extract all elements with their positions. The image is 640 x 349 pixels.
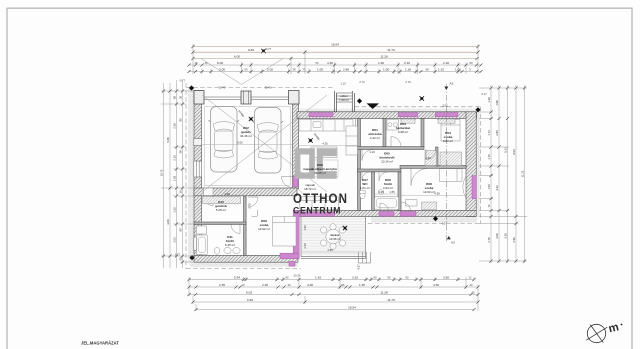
bathtub D06 — [375, 197, 399, 210]
svg-text:5.29 m²: 5.29 m² — [216, 208, 226, 212]
svg-text:3.50: 3.50 — [443, 275, 449, 279]
window W1 living top — [309, 113, 333, 117]
porch wall left — [335, 91, 337, 112]
dim row B5 — [196, 309, 474, 311]
insulation band right wall — [476, 109, 479, 217]
bed szoba left — [273, 217, 297, 247]
svg-text:3.26: 3.26 — [504, 233, 508, 239]
corner marker bottom-left — [189, 255, 194, 260]
window sill arcs — [310, 119, 467, 199]
svg-text:5.94: 5.94 — [234, 275, 240, 279]
dim line furdo interior — [375, 193, 399, 195]
desk D08 — [406, 200, 418, 207]
G_DIM_LEFT vertical chains — [161, 80, 194, 268]
svg-text:11.22: 11.22 — [521, 170, 525, 177]
svg-text:1.05: 1.05 — [173, 175, 177, 181]
roof overhang dashed line top right wing — [355, 106, 481, 108]
svg-text:6.00: 6.00 — [234, 54, 240, 58]
G_WATERMARK — [293, 148, 348, 215]
dim col R5 — [524, 85, 526, 263]
dim col L1 — [163, 83, 165, 268]
svg-text:1.35: 1.35 — [359, 283, 365, 287]
door arc furdo — [379, 172, 388, 181]
roof valley left — [201, 59, 242, 85]
car 1 body — [211, 107, 238, 173]
svg-text:1.93: 1.93 — [315, 275, 321, 279]
dining table — [314, 160, 338, 177]
insulation band bottom left block — [190, 262, 298, 267]
corner marker top-left — [189, 85, 194, 90]
G_DOOR_ARCS — [231, 137, 436, 234]
terrace steps — [359, 252, 371, 263]
svg-text:2.30: 2.30 — [303, 243, 307, 249]
svg-text:30: 30 — [179, 190, 183, 193]
svg-text:OTTHON: OTTHON — [293, 190, 348, 206]
svg-text:4.43: 4.43 — [495, 185, 499, 191]
svg-text:2.96: 2.96 — [512, 237, 516, 243]
wall D10/D11 divider — [194, 222, 246, 225]
compass circle — [586, 324, 607, 342]
radiator under W3 — [438, 119, 455, 123]
svg-text:1.88: 1.88 — [495, 100, 499, 106]
svg-text:38: 38 — [293, 67, 296, 71]
svg-text:-0.77: -0.77 — [265, 47, 272, 51]
svg-text:A3: A3 — [450, 82, 454, 86]
car 2 windshield — [257, 123, 279, 133]
svg-text:30: 30 — [205, 61, 208, 65]
G_PORCH entrance — [335, 91, 355, 112]
svg-text:2.03: 2.03 — [173, 237, 177, 243]
dim col L2 — [169, 83, 171, 268]
kitchen island — [311, 147, 337, 158]
svg-text:1.00: 1.00 — [455, 67, 461, 71]
window W2 D03 top — [398, 113, 417, 117]
svg-text:11.28: 11.28 — [380, 54, 388, 58]
dim col L3 — [176, 80, 178, 268]
wardrobe D10 — [203, 197, 241, 204]
wall garage/living divider — [293, 99, 299, 189]
G_DIM_BOTTOM — [189, 277, 478, 311]
svg-text:6.45 m²: 6.45 m² — [225, 243, 235, 247]
car 2 roof — [259, 132, 278, 152]
svg-text:13.96 m²: 13.96 m² — [329, 237, 341, 241]
door arc D03 — [391, 137, 401, 147]
terrace door bottom living — [300, 212, 335, 216]
svg-text:34.46 m²: 34.46 m² — [240, 134, 252, 138]
garage corner post right — [289, 91, 300, 105]
svg-text:98: 98 — [426, 67, 429, 71]
G_PINK openings — [280, 113, 476, 267]
pink wall vertical szoba/terrace — [293, 210, 299, 258]
bathtub D11 — [197, 235, 208, 255]
dim line living interior — [299, 145, 358, 147]
svg-text:60: 60 — [245, 67, 248, 71]
door arc D04 — [426, 150, 436, 160]
svg-text:2.10: 2.10 — [173, 155, 177, 161]
dim row4 line — [189, 64, 481, 66]
wall right exterior — [466, 112, 476, 217]
level marker living — [308, 138, 312, 142]
door D2 bottom D08 — [400, 212, 416, 217]
svg-text:30: 30 — [179, 257, 183, 260]
svg-text:80: 80 — [173, 96, 177, 99]
porch steps — [336, 93, 352, 102]
svg-text:1.15: 1.15 — [487, 154, 491, 160]
G_ROOM_LABELS — [215, 94, 453, 247]
door D1 bottom furdo — [379, 212, 394, 217]
svg-text:90: 90 — [286, 275, 289, 279]
svg-text:10.14 m²: 10.14 m² — [381, 160, 393, 164]
door arc D11 — [231, 225, 240, 234]
svg-text:2.80: 2.80 — [343, 67, 349, 71]
dim extension horizontals left — [161, 91, 194, 262]
svg-text:2.79: 2.79 — [405, 80, 411, 84]
svg-text:1.35: 1.35 — [378, 190, 384, 194]
svg-text:11.70: 11.70 — [387, 48, 395, 52]
svg-text:73: 73 — [303, 67, 306, 71]
car 2 rear window — [258, 151, 278, 159]
watermark O — [295, 148, 315, 179]
svg-text:4.37: 4.37 — [357, 264, 361, 270]
door arc szoba hall — [248, 197, 258, 207]
radiator D08 — [422, 202, 437, 210]
window gap D11 left wall — [194, 237, 202, 251]
svg-text:11.28: 11.28 — [380, 290, 388, 294]
svg-text:1.55: 1.55 — [389, 190, 395, 194]
door arc furdo bottom — [380, 203, 389, 212]
svg-text:10.72: 10.72 — [160, 169, 164, 176]
svg-text:4.36: 4.36 — [307, 283, 313, 287]
svg-text:40: 40 — [472, 290, 475, 294]
gravel walkway bottom right wing — [371, 217, 477, 223]
wardrobe D04 — [425, 151, 437, 166]
svg-text:30/40: 30/40 — [265, 86, 272, 90]
G_DIM_TOP — [193, 47, 478, 59]
svg-text:50: 50 — [316, 61, 319, 65]
svg-text:90: 90 — [388, 275, 391, 279]
svg-text:1.32: 1.32 — [438, 67, 444, 71]
washer block D11 — [197, 226, 207, 234]
toilet D07 — [360, 192, 365, 198]
svg-text:2.85: 2.85 — [495, 130, 499, 136]
svg-text:3.80: 3.80 — [166, 219, 170, 225]
dim col L4 — [182, 80, 184, 268]
section line A3 — [445, 84, 447, 242]
svg-text:3.06: 3.06 — [495, 233, 499, 239]
table terrace — [326, 229, 340, 243]
dim line terrace interior — [301, 251, 366, 253]
roof diagonal living — [298, 189, 327, 216]
svg-text:1.61 m²: 1.61 m² — [360, 186, 370, 190]
garage corner post left — [194, 91, 204, 105]
svg-text:6.03: 6.03 — [246, 290, 252, 294]
bed D08 — [440, 169, 463, 182]
door arc D08 bottom — [401, 202, 411, 212]
svg-text:4.42 m²: 4.42 m² — [370, 136, 380, 140]
dim col R1 — [490, 85, 492, 263]
entry marker triangle — [367, 103, 380, 109]
svg-text:2.10: 2.10 — [404, 61, 410, 65]
door arc WC — [362, 172, 370, 180]
svg-text:39.05 m²: 39.05 m² — [314, 171, 326, 175]
wall bottom living+right wing — [297, 210, 476, 216]
svg-text:36: 36 — [179, 150, 183, 153]
dim line D08 interior — [401, 195, 466, 197]
svg-text:90: 90 — [406, 275, 409, 279]
svg-text:2.00: 2.00 — [267, 67, 273, 71]
dim extension verticals bottom — [189, 277, 478, 311]
svg-text:2.00: 2.00 — [219, 67, 225, 71]
level marker top row — [261, 49, 265, 53]
svg-text:18.54: 18.54 — [331, 42, 339, 46]
svg-text:1.50: 1.50 — [303, 225, 307, 231]
svg-text:20 26: 20 26 — [294, 274, 301, 278]
svg-text:3.10: 3.10 — [352, 275, 358, 279]
G_CARS — [209, 107, 284, 174]
svg-text:2.76: 2.76 — [487, 237, 491, 243]
wall D03/D04 vertical — [421, 119, 424, 147]
roof overhang dashed line bottom right wing — [368, 223, 481, 225]
porch wall right — [352, 91, 354, 112]
wall garage bottom — [194, 188, 297, 196]
G_DIM_RIGHT vertical chains — [479, 85, 527, 263]
svg-text:4.35: 4.35 — [327, 248, 333, 252]
svg-text:6.84: 6.84 — [247, 298, 253, 302]
svg-text:1.38: 1.38 — [487, 97, 491, 103]
svg-text:6.00: 6.00 — [217, 61, 223, 65]
G_INTERIOR_WALLS — [194, 119, 466, 256]
dim col R2 — [498, 85, 500, 263]
svg-text:1.18: 1.18 — [405, 67, 411, 71]
G_GARAGE_FRONT posts — [194, 91, 299, 105]
svg-text:-0.17: -0.17 — [441, 222, 448, 226]
svg-text:4.94 m²: 4.94 m² — [383, 186, 393, 190]
dim col R3 — [507, 85, 509, 263]
svg-text:12: 12 — [469, 275, 472, 279]
level marker garage — [249, 117, 253, 121]
garage interior screed line — [204, 107, 290, 186]
svg-text:6.84: 6.84 — [248, 48, 254, 52]
svg-text:30/40: 30/40 — [219, 86, 226, 90]
wall WC/furdo vertical — [372, 172, 375, 211]
svg-text:16.54: 16.54 — [348, 305, 356, 309]
wall szoba/gardrob divider vertical — [244, 196, 247, 256]
roof overhang dashed line bottom left block — [186, 268, 301, 270]
svg-text:6.22: 6.22 — [504, 147, 508, 153]
svg-text:2.35: 2.35 — [219, 283, 225, 287]
dim row B4 — [193, 301, 478, 303]
svg-text:1.00: 1.00 — [317, 67, 323, 71]
svg-text:7.08 m²: 7.08 m² — [339, 98, 349, 102]
TERRACE — [301, 217, 371, 263]
car 1 roof — [215, 131, 234, 151]
watermark C — [317, 148, 337, 179]
dim extension verticals top — [193, 44, 478, 74]
G_STIPPLE insulation bands — [188, 89, 480, 268]
wall D01/D03 vertical — [383, 119, 386, 147]
wall top living+right wing — [297, 112, 477, 119]
car 1 mirrors — [209, 120, 240, 122]
svg-text:1.19: 1.19 — [369, 150, 375, 154]
svg-text:72: 72 — [487, 204, 491, 207]
car 1 windshield — [213, 122, 235, 132]
sofa living — [300, 197, 339, 210]
dim row3 line — [193, 58, 477, 60]
insulation band top right wing — [300, 109, 476, 112]
svg-text:5.46: 5.46 — [166, 137, 170, 143]
roof overhang dashed line top garage — [186, 86, 335, 88]
wall furdo/D08 vertical — [398, 172, 401, 211]
door arc D08 — [411, 168, 428, 185]
svg-text:4.38: 4.38 — [434, 192, 440, 196]
door arc D01 — [362, 150, 373, 161]
svg-text:A3: A3 — [451, 241, 455, 245]
pink door garage/living — [293, 176, 298, 187]
svg-text:18.72 m²: 18.72 m² — [304, 187, 316, 191]
svg-text:2.30: 2.30 — [262, 283, 268, 287]
svg-text:40: 40 — [195, 61, 198, 65]
dim line garage interior — [202, 144, 293, 146]
roof valley right — [242, 59, 284, 85]
dim row1 line 18.54 — [193, 46, 478, 48]
sink D06 — [378, 190, 384, 195]
wardrobe D04b — [440, 152, 462, 166]
svg-text:30: 30 — [179, 96, 183, 99]
garage middle post — [241, 91, 251, 104]
wall D04 wardrobe stub — [436, 147, 439, 166]
svg-text:8.04: 8.04 — [512, 149, 516, 155]
G_DASHED_ROOF — [186, 83, 481, 269]
svg-text:0.17: 0.17 — [481, 92, 487, 96]
car 2 body — [255, 108, 282, 174]
pink wall horizontal bath — [280, 253, 299, 258]
terrace deck — [301, 217, 366, 257]
svg-text:10: 10 — [242, 283, 245, 287]
window W3 D04 top — [435, 113, 458, 117]
svg-text:1.10: 1.10 — [340, 82, 346, 86]
svg-text:2.75: 2.75 — [248, 203, 252, 209]
bed D04 — [441, 120, 460, 142]
level marker top wall — [420, 96, 424, 100]
svg-text:2.70: 2.70 — [359, 80, 365, 84]
dim extension horizontals right — [479, 88, 527, 261]
G_ROOF_DIAGONALS — [201, 59, 327, 217]
door arc garage-living — [282, 177, 293, 188]
svg-text:3.98 m²: 3.98 m² — [398, 130, 408, 134]
svg-text:1.55: 1.55 — [173, 207, 177, 213]
corner marker porch — [357, 98, 362, 103]
wall bottom left block — [194, 255, 298, 262]
svg-text:JEL.MAGYARÁZAT: JEL.MAGYARÁZAT — [81, 341, 119, 346]
toilet D11 — [214, 247, 220, 254]
svg-text:4.35: 4.35 — [322, 141, 328, 145]
svg-text:90: 90 — [179, 228, 183, 231]
corner marker top-right — [475, 107, 480, 112]
pink door stub below wall — [289, 262, 295, 267]
door arc garage D10 — [203, 189, 213, 206]
kitchen sink — [313, 122, 321, 128]
G_MARKERS — [189, 49, 481, 260]
kitchen counter right — [346, 126, 358, 155]
svg-text:1.73: 1.73 — [487, 130, 491, 136]
svg-text:12.04 m²: 12.04 m² — [423, 190, 435, 194]
roof hip diagonal NW-SE — [202, 95, 327, 192]
svg-text:2.38: 2.38 — [173, 123, 177, 129]
dim row B1 — [189, 279, 474, 281]
dim row5 line — [189, 71, 481, 73]
svg-text:95: 95 — [342, 283, 345, 287]
insulation band left wall — [188, 89, 194, 263]
roof hip diagonal SW-NE — [202, 95, 327, 192]
sink D11 double — [224, 247, 231, 253]
dim row2 line — [193, 51, 478, 53]
svg-text:12.92 m²: 12.92 m² — [258, 227, 270, 231]
svg-text:2.40: 2.40 — [425, 156, 431, 160]
svg-text:CENTRUM: CENTRUM — [293, 205, 341, 216]
door arc gardrob — [252, 210, 258, 217]
car 1 rear window — [214, 150, 234, 158]
G_DIM_INTERIOR — [202, 145, 466, 253]
chairs terrace — [320, 227, 326, 233]
svg-text:2.10: 2.10 — [443, 61, 449, 65]
svg-text:1.00: 1.00 — [383, 67, 389, 71]
svg-text:4.30: 4.30 — [327, 61, 333, 65]
svg-text:4.30: 4.30 — [433, 283, 439, 287]
svg-text:2.98: 2.98 — [224, 192, 230, 196]
door gap garage to D10 — [204, 188, 214, 195]
svg-text:90: 90 — [179, 118, 183, 121]
dim col R4 — [515, 85, 517, 263]
wall D08 top horizontal — [400, 165, 466, 168]
dim row B3 — [189, 294, 478, 296]
svg-text:1.60: 1.60 — [378, 61, 384, 65]
terrace border — [301, 217, 366, 258]
wall left exterior — [194, 91, 202, 257]
car 2 mirrors — [253, 121, 284, 123]
svg-text:2.02: 2.02 — [442, 104, 448, 108]
svg-text:30: 30 — [288, 283, 291, 287]
roof overhang dashed line left — [185, 83, 187, 269]
G_FURNITURE — [197, 119, 463, 255]
wall kozlekedo/WC-furdo horizontal — [358, 169, 402, 172]
washer dryer D03 — [387, 120, 399, 131]
kitchen counter top — [299, 120, 353, 132]
svg-text:90: 90 — [374, 275, 377, 279]
entry door leaf — [343, 119, 356, 132]
svg-text:9.81 m²: 9.81 m² — [443, 139, 453, 143]
level marker terrace — [343, 226, 347, 230]
svg-text:-0.77: -0.77 — [179, 79, 186, 83]
dim row B2 — [189, 286, 478, 288]
svg-text:11.70: 11.70 — [387, 298, 395, 302]
garage door header lines — [204, 97, 289, 100]
wall living/D01 vertical — [358, 119, 361, 211]
svg-text:1.50: 1.50 — [487, 184, 491, 190]
window gap garage left wall — [194, 139, 202, 178]
wall below D01 D03 horizontal — [358, 147, 425, 150]
radiator under W2 — [401, 119, 415, 123]
window W4 right wall D08 — [472, 176, 476, 199]
roof overhang dashed line right — [480, 107, 482, 224]
svg-text:40: 40 — [470, 283, 473, 287]
corner marker bottom-right wing — [433, 216, 438, 221]
svg-text:6.00: 6.00 — [237, 140, 243, 144]
svg-text:50: 50 — [470, 61, 473, 65]
G_WALLS exterior hatched — [194, 91, 477, 263]
